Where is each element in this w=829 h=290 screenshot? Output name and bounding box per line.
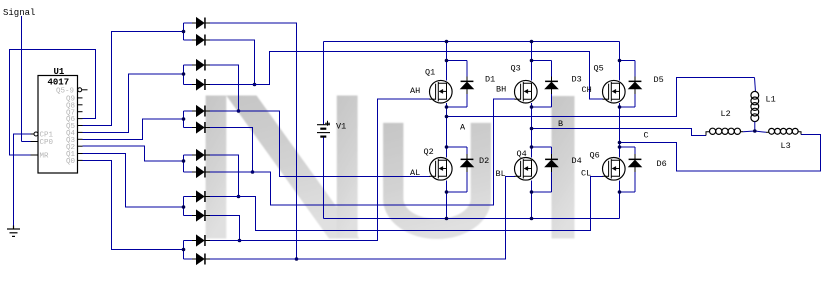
svg-text:Q0: Q0	[66, 158, 76, 166]
wire Signal to CP0	[21, 16, 23, 142]
transistor Q6 (N-channel MOSFET)	[603, 158, 626, 181]
wire pair5 lower anode lead	[184, 215, 193, 217]
pin Q3 stub	[78, 138, 83, 140]
wire pair5 junction vertical	[183, 197, 185, 216]
wire B leg source bottom	[531, 181, 533, 219]
pin Q7 stub	[78, 111, 83, 113]
wire A leg to D1 cathode	[447, 60, 468, 62]
node junction d6/d8	[251, 170, 255, 174]
node rail junctions	[445, 40, 449, 44]
node pair4 input junction	[182, 159, 186, 163]
node pair1 input junction	[182, 30, 186, 34]
wire A leg source bottom	[446, 181, 448, 219]
node junction d10/d11	[238, 239, 242, 243]
wire pair6 lower anode lead	[184, 258, 193, 260]
wire C leg mid	[619, 103, 621, 158]
wire B leg drain top	[531, 42, 533, 81]
wire phase C to L3 far end	[620, 135, 821, 172]
wire C leg source bottom	[619, 181, 621, 219]
wire B leg mid	[531, 103, 533, 158]
transistor Q1 (N-channel MOSFET)	[430, 80, 453, 103]
svg-text:AL: AL	[410, 168, 420, 178]
svg-text:D1: D1	[485, 74, 495, 84]
wire pair5 upper anode lead	[184, 196, 193, 198]
diode D8 (steering diode, anode x=183.5)	[192, 34, 210, 45]
svg-text:D5: D5	[654, 75, 664, 85]
wire pair3 upper anode lead	[184, 110, 193, 112]
diode D14 (steering diode, anode x=183.5)	[192, 166, 210, 177]
diode D15 (steering diode, anode x=183.5)	[192, 191, 210, 202]
wire CP0 pin lead	[22, 141, 31, 143]
wire D4 anode join	[532, 191, 552, 193]
wire D3 anode join	[532, 106, 552, 108]
svg-text:D2: D2	[479, 156, 489, 166]
svg-text:L3: L3	[781, 141, 791, 151]
wire D6 anode join	[620, 191, 636, 193]
node star point	[753, 129, 757, 133]
battery plus sign	[325, 121, 330, 126]
svg-text:L2: L2	[721, 109, 731, 119]
svg-text:D6: D6	[657, 159, 667, 169]
diode D4	[545, 147, 558, 192]
svg-text:L1: L1	[766, 94, 776, 104]
pin MR (master reset)	[31, 154, 39, 156]
diode D2	[460, 147, 473, 192]
wire Q0 to pair6 input	[83, 160, 184, 249]
svg-text:Q3: Q3	[511, 63, 521, 73]
node B leg junction y=192	[530, 190, 534, 194]
wire net AH: d10 output down	[210, 216, 240, 241]
svg-text:V1: V1	[336, 121, 346, 131]
wire net BL: d12 row up to Q4 gate	[210, 177, 515, 260]
node A leg junction y=192	[445, 190, 449, 194]
wire A leg drain top	[446, 42, 448, 81]
transistor Q2 (N-channel MOSFET)	[430, 158, 453, 181]
op/IC U1 4017 decade counter body	[38, 76, 78, 174]
node B leg junction y=60.5	[530, 59, 534, 63]
transistor Q5 (N-channel MOSFET)	[603, 80, 626, 103]
wire ground bottom rail	[324, 218, 620, 220]
diode D16 (steering diode, anode x=183.5)	[192, 210, 210, 221]
svg-text:Q5: Q5	[594, 64, 604, 74]
wire D1 anode join	[447, 106, 468, 108]
inductor L3	[755, 131, 766, 132]
wire pair4 lower anode lead	[184, 171, 193, 173]
node B leg junction y=147	[530, 145, 534, 149]
diode D18 (steering diode, anode x=183.5)	[192, 253, 210, 264]
wire V+ top rail	[324, 41, 620, 43]
svg-text:BL: BL	[496, 169, 506, 179]
inductor L1	[755, 78, 756, 93]
wire net CH: d4 row up and across to Q5 gate	[210, 52, 603, 100]
wire net CH: d2 output down	[210, 40, 255, 85]
node pair5 input junction	[182, 205, 186, 209]
wire C leg to D5 cathode	[620, 60, 636, 62]
node C leg junction y=107	[618, 105, 622, 109]
svg-text:BH: BH	[496, 84, 506, 94]
wire net BH: d6 output down	[210, 128, 253, 173]
svg-text:B: B	[558, 119, 563, 129]
diode D1	[460, 61, 473, 108]
wire B leg to D4 cathode	[532, 146, 552, 148]
wire phase A to L1	[447, 78, 755, 117]
inductor L2	[706, 132, 710, 136]
node A leg junction y=107	[445, 105, 449, 109]
wire pair3 junction vertical	[183, 111, 185, 128]
pin CP0 (clock)	[31, 141, 39, 143]
node pair6 input junction	[182, 248, 186, 252]
transistor Q3 (N-channel MOSFET)	[515, 80, 538, 103]
node A leg junction y=60.5	[445, 59, 449, 63]
wire net CL: d9 row to Q6 gate	[210, 177, 603, 231]
wire D5 anode join	[620, 106, 636, 108]
wire pair6 upper anode lead	[184, 240, 193, 242]
diode D10 (steering diode, anode x=183.5)	[192, 79, 210, 90]
ground	[7, 226, 20, 237]
wire pair6 junction vertical	[183, 241, 185, 260]
pin Q2 stub	[78, 145, 83, 147]
pin Q8 stub	[78, 104, 83, 106]
svg-text:D4: D4	[572, 156, 582, 166]
svg-text:4017: 4017	[48, 78, 70, 88]
wire Q4 to pair2 input	[83, 74, 184, 132]
svg-text:D3: D3	[572, 74, 582, 84]
wire net AH: d11 row up to Q1 gate	[210, 99, 430, 241]
pin Q9 stub	[78, 97, 83, 99]
node junction d2/d4	[253, 83, 257, 87]
wire pair1 junction vertical	[183, 23, 185, 40]
diode D5	[628, 61, 641, 108]
svg-text:C: C	[644, 131, 649, 141]
wire net CL: d7 output down	[210, 155, 239, 197]
wire feedback Q6 to MR	[10, 50, 96, 156]
wire pair2 upper anode lead	[184, 64, 193, 66]
wire phase B to L2	[532, 129, 707, 136]
node pair2 input junction	[182, 72, 186, 76]
node C leg junction y=60.5	[618, 59, 622, 63]
node junction d1/d12	[295, 257, 299, 261]
node C leg junction y=147	[618, 145, 622, 149]
wire C leg to D6 cathode	[620, 146, 636, 148]
pin Q6 stub	[78, 118, 83, 120]
svg-text:AH: AH	[410, 86, 420, 96]
pin Q1 stub	[78, 153, 83, 155]
wire Q3 to pair3 input	[83, 119, 184, 139]
diode D7 (steering diode, anode x=183.5)	[192, 17, 210, 28]
wire Q5 to pair1 input	[83, 32, 184, 126]
wire pair2 lower anode lead	[184, 84, 193, 86]
pin Q5 stub	[78, 125, 83, 127]
node junction d7/d9	[237, 195, 241, 199]
svg-text:Q4: Q4	[517, 149, 527, 159]
wire net BH: d8 row to Q3 gate	[210, 99, 515, 205]
wire pair1 upper anode lead	[184, 22, 193, 24]
svg-text:Q5-9: Q5-9	[56, 87, 74, 95]
node B leg junction y=107	[530, 105, 534, 109]
svg-text:Q2: Q2	[424, 147, 434, 157]
svg-text:Q6: Q6	[590, 150, 600, 160]
transistor Q4 (N-channel MOSFET)	[515, 158, 538, 181]
svg-text:A: A	[460, 122, 466, 132]
wire net BL: d1 output down	[210, 23, 297, 259]
wire Q2 to pair4 input	[83, 146, 184, 161]
diode D11 (steering diode, anode x=183.5)	[192, 105, 210, 116]
svg-text:Signal: Signal	[3, 8, 35, 18]
wire C leg drain top	[619, 42, 621, 81]
pin Q0 stub	[78, 159, 83, 161]
node junction d3/d5	[237, 109, 241, 113]
diode D17 (steering diode, anode x=183.5)	[192, 235, 210, 246]
pin Q4 stub	[78, 131, 83, 133]
wire B leg to D3 cathode	[532, 60, 552, 62]
wire pair3 lower anode lead	[184, 127, 193, 129]
wire pair1 lower anode lead	[184, 39, 193, 41]
svg-text:MR: MR	[40, 153, 50, 161]
pin Q5-9 (carry out, with bubble, unconnected)	[78, 88, 82, 92]
wire pair4 junction vertical	[183, 155, 185, 172]
svg-text:CP0: CP0	[40, 139, 54, 147]
wire pair2 junction vertical	[183, 65, 185, 85]
wire battery positive lead	[323, 42, 325, 125]
wire pair4 upper anode lead	[184, 154, 193, 156]
node C leg junction y=192	[618, 190, 622, 194]
svg-text:CH: CH	[582, 85, 592, 95]
pin CP1 (clock enable, bubble)	[34, 132, 38, 136]
wire net AL: d3 output down	[210, 65, 239, 111]
diode D13 (steering diode, anode x=183.5)	[192, 149, 210, 160]
diode D3	[545, 61, 558, 108]
wire CP1 to ground	[14, 134, 31, 226]
svg-text:U1: U1	[54, 67, 65, 77]
svg-text:CL: CL	[581, 168, 591, 178]
wire A leg mid	[446, 103, 448, 158]
wire D2 anode join	[447, 191, 468, 193]
node A leg junction y=147	[445, 145, 449, 149]
svg-text:Q1: Q1	[425, 67, 435, 77]
wire battery negative lead	[323, 138, 325, 219]
wire A leg to D2 cathode	[447, 146, 468, 148]
wire Q1 to pair5 input	[83, 154, 184, 208]
diode D12 (steering diode, anode x=183.5)	[192, 122, 210, 133]
wire net AL: d5 row down to Q2 gate	[210, 111, 430, 177]
diode D6	[628, 147, 641, 192]
node pair3 input junction	[182, 117, 186, 121]
diode D9 (steering diode, anode x=183.5)	[192, 59, 210, 70]
